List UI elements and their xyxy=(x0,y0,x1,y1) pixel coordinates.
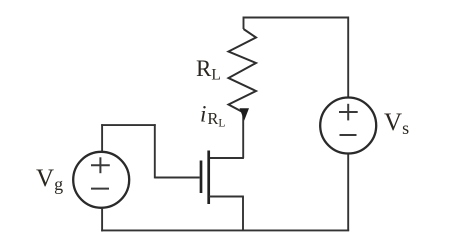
wire gate horizontal xyxy=(155,177,200,179)
resistor RL xyxy=(229,29,257,113)
arrowhead iRL xyxy=(240,108,250,120)
wire top (drain node to Vs top) xyxy=(244,18,349,98)
wire gate loop vertical xyxy=(154,124,156,178)
voltage source Vg circle xyxy=(73,152,129,208)
svg-text:iRL: iRL xyxy=(200,102,225,130)
transistor Q1 channel bar xyxy=(207,151,210,205)
wire Vg bottom vertical xyxy=(101,208,103,231)
svg-text:Vs: Vs xyxy=(384,109,409,138)
transistor Q1 gate bar xyxy=(200,161,203,194)
wire drain vertical xyxy=(242,112,244,158)
wire gate loop horizontal xyxy=(101,124,156,126)
Vs plus sign xyxy=(339,111,358,113)
Vs minus sign xyxy=(340,134,357,136)
wire bottom rail xyxy=(101,229,349,231)
wire Vg top vertical xyxy=(101,124,103,151)
Vg minus sign xyxy=(91,188,109,190)
voltage source Vs circle xyxy=(320,98,376,154)
svg-text:Vg: Vg xyxy=(36,165,63,194)
wire source horizontal xyxy=(209,196,244,198)
svg-text:RL: RL xyxy=(196,56,221,84)
wire source vertical xyxy=(242,197,244,231)
wire Vs bottom vertical xyxy=(347,154,349,231)
Vg plus sign xyxy=(91,164,110,166)
wire drain horizontal xyxy=(209,157,244,159)
